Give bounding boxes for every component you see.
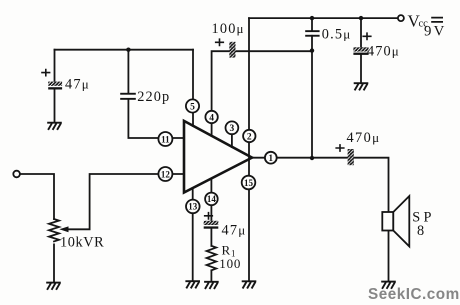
svg-text:100μ: 100μ	[212, 21, 245, 37]
svg-text:3: 3	[230, 124, 235, 134]
svg-text:100: 100	[219, 256, 241, 271]
svg-text:14: 14	[207, 194, 217, 204]
svg-text:2: 2	[247, 132, 252, 142]
svg-text:220p: 220p	[137, 89, 170, 105]
svg-text:11: 11	[161, 134, 170, 144]
svg-text:470μ: 470μ	[367, 44, 400, 60]
svg-text:5: 5	[190, 102, 195, 112]
svg-text:12: 12	[161, 169, 171, 179]
svg-text:47μ: 47μ	[222, 223, 247, 239]
svg-text:470μ: 470μ	[347, 130, 381, 146]
svg-text:9V: 9V	[424, 24, 446, 40]
svg-text:47μ: 47μ	[65, 77, 90, 93]
svg-text:13: 13	[188, 202, 198, 212]
svg-text:1: 1	[268, 154, 273, 164]
svg-text:0.5μ: 0.5μ	[322, 27, 352, 43]
svg-text:8: 8	[417, 223, 425, 239]
svg-text:4: 4	[209, 113, 214, 123]
svg-text:15: 15	[244, 178, 254, 188]
svg-text:10kVR: 10kVR	[60, 235, 104, 251]
